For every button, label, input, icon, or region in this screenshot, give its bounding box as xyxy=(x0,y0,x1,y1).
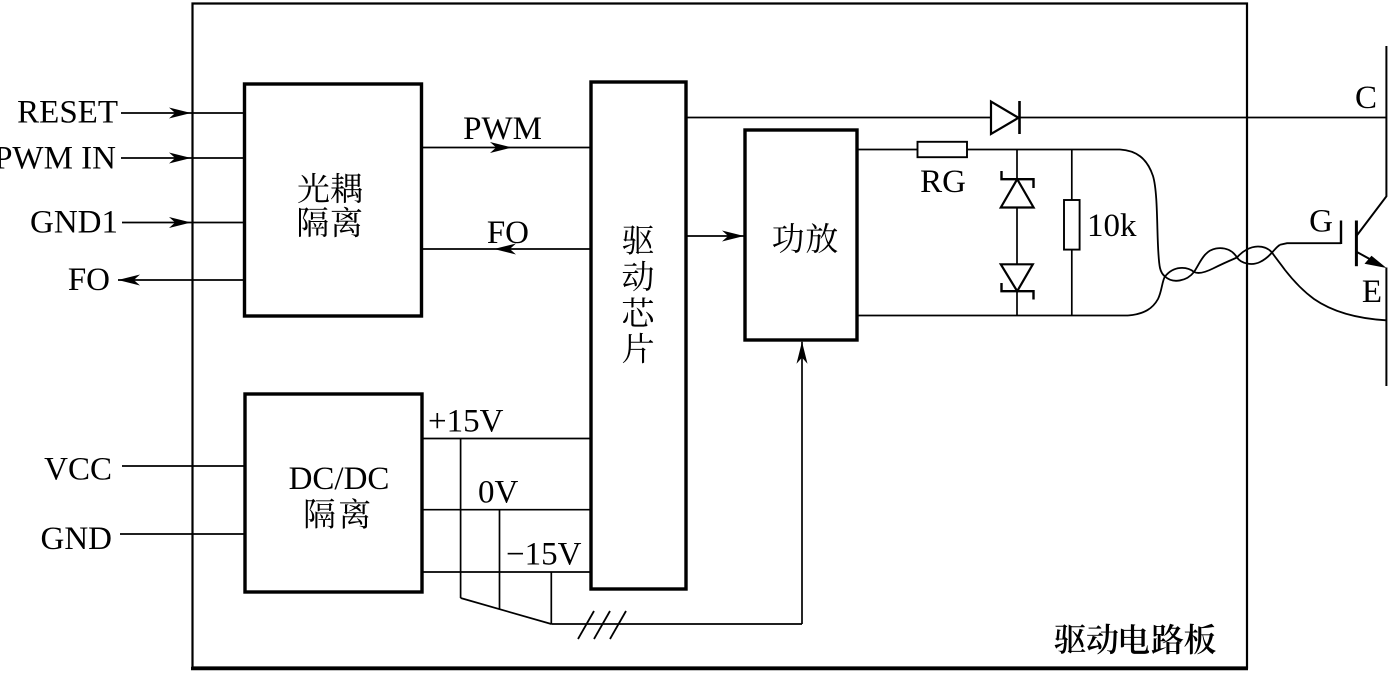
wire -15V drop xyxy=(550,572,552,624)
block U1 optocoupler isolation xyxy=(245,84,422,316)
svg-text:FO: FO xyxy=(487,215,529,251)
svg-text:+15V: +15V xyxy=(428,404,504,440)
svg-text:0V: 0V xyxy=(478,475,519,511)
wire 10k bottom xyxy=(1071,250,1073,316)
wire emitter rail xyxy=(857,315,1128,317)
svg-text:GND1: GND1 xyxy=(30,205,118,241)
wire GND input xyxy=(120,533,245,535)
label 驱动芯片 (driver chip) xyxy=(623,225,654,363)
wire U3 out to RG xyxy=(857,149,918,151)
svg-text:E: E xyxy=(1362,274,1382,310)
board outline bottom edge (thicker) xyxy=(191,667,1248,670)
arrowhead FO output xyxy=(118,275,140,286)
block U3 power amplifier 功放 xyxy=(745,130,857,340)
block U4 DC/DC isolation xyxy=(245,394,422,592)
arrowhead GND1 xyxy=(169,217,191,228)
wire FO output xyxy=(118,279,244,281)
wire zener branch top xyxy=(1016,150,1018,180)
board outline (driver circuit board) xyxy=(193,4,1248,668)
svg-text:RESET: RESET xyxy=(17,95,118,131)
arrowhead PWM IN xyxy=(169,153,191,164)
wire gate descent to twisted pair xyxy=(1120,150,1165,277)
wire VCC input xyxy=(122,465,245,467)
wire +15V xyxy=(422,438,591,440)
twisted pair wire (emitter strand) xyxy=(1165,247,1272,277)
svg-text:G: G xyxy=(1309,204,1333,240)
arrowhead FO xyxy=(494,244,516,255)
zener Z1 (transient suppressor, cathode up) xyxy=(1002,171,1034,188)
wire PWM IN input xyxy=(121,157,244,159)
IGBT Q1 emitter lead with arrow xyxy=(1356,252,1376,263)
label 隔离 (isolation) xyxy=(299,207,361,237)
wire between zeners xyxy=(1016,208,1018,265)
wire GND1 input xyxy=(122,222,244,224)
wire RESET input xyxy=(121,112,244,114)
wire +15V drop xyxy=(460,439,462,599)
svg-text:PWM IN: PWM IN xyxy=(0,141,116,177)
label 隔离 (DC/DC isolation) xyxy=(306,498,370,528)
wire -15V xyxy=(422,571,591,573)
bus wire to U3 xyxy=(801,342,803,624)
wire emitter down lead xyxy=(1385,268,1387,387)
wire emitter rail rise to twisted pair xyxy=(1128,277,1165,316)
wire PWM xyxy=(422,147,592,149)
zener Z2 (transient suppressor, cathode down) xyxy=(1001,264,1033,291)
IGBT Q1 collector lead xyxy=(1356,46,1386,236)
arrowhead RESET xyxy=(169,108,191,119)
wire 10k top xyxy=(1071,150,1073,201)
svg-text:VCC: VCC xyxy=(44,452,112,488)
label 光耦 (optocoupler) xyxy=(298,173,362,203)
wire FO xyxy=(422,248,592,250)
bus slash marks (3 wires) xyxy=(578,611,626,639)
wire RG to corner xyxy=(967,149,1120,151)
bus wire horizontal xyxy=(551,623,802,625)
svg-text:DC/DC: DC/DC xyxy=(289,461,390,497)
IGBT Q1 body bar xyxy=(1355,221,1358,267)
wire zener branch bottom xyxy=(1016,291,1018,315)
arrowhead U2 to U3 xyxy=(722,231,744,242)
resistor RG xyxy=(918,142,968,157)
label 功放 (power amp) xyxy=(773,223,838,253)
wire collector rail xyxy=(686,117,1386,119)
arrowhead bus to U3 xyxy=(797,342,808,364)
twisted pair wire (gate strand) xyxy=(1165,245,1280,281)
svg-text:C: C xyxy=(1355,80,1377,116)
IGBT Q1 gate bar xyxy=(1340,221,1342,245)
svg-text:−15V: −15V xyxy=(506,537,582,573)
wire 0V xyxy=(422,509,591,511)
svg-text:PWM: PWM xyxy=(463,111,542,147)
svg-text:GND: GND xyxy=(41,521,113,557)
wire 0V drop xyxy=(499,510,501,610)
wire gate lead xyxy=(1280,243,1341,245)
svg-text:10k: 10k xyxy=(1087,208,1137,244)
caption 驱动电路板 (driver circuit board) xyxy=(1055,624,1216,655)
arrowhead PWM xyxy=(490,142,512,153)
svg-text:RG: RG xyxy=(920,164,966,200)
twisted pair emitter strand arc to E xyxy=(1272,253,1386,321)
bus merge slant xyxy=(461,598,552,624)
resistor R 10k xyxy=(1064,200,1080,250)
diode D1 xyxy=(991,102,1019,135)
svg-text:FO: FO xyxy=(68,262,110,298)
wire U2 to U3 xyxy=(686,235,745,237)
block U2 driver chip 驱动芯片 xyxy=(591,82,686,589)
